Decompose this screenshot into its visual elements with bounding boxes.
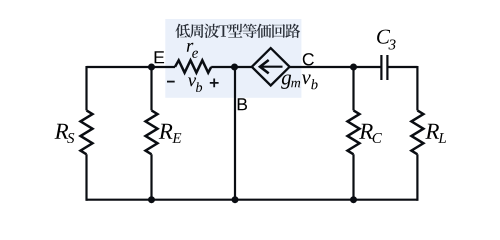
label vb: [188, 78, 202, 93]
capacitor C3 plates: [381, 55, 387, 80]
wire: top-left horizontal segment from RS top corner to node E: [87, 66, 152, 68]
dependent current source G1 arrow head pointing left: [260, 60, 269, 73]
label re: [187, 43, 198, 58]
wire: current source right terminal to RC top junction: [290, 66, 354, 68]
label C (node): [303, 53, 314, 65]
resistor RS: [81, 110, 93, 154]
wire: node E to resistor re left lead: [152, 66, 176, 68]
label RC: [359, 124, 382, 143]
resistor RE: [146, 110, 158, 154]
label E: [155, 51, 165, 63]
resistor RC bottom lead: [352, 154, 354, 199]
label RS: [55, 124, 75, 143]
label RE: [159, 124, 182, 143]
label gm vb: [281, 75, 317, 90]
resistor RL top lead: [416, 66, 418, 110]
dependent current source G1 (gm vb) diamond body: [252, 48, 290, 85]
node E junction dot: [148, 64, 155, 71]
label B: [238, 98, 247, 110]
resistor RC: [348, 110, 360, 154]
resistor RS top lead: [85, 66, 87, 110]
resistor RC top lead: [352, 67, 354, 110]
dependent current source G1 arrow shaft: [262, 66, 283, 68]
wire: bottom rail: [87, 199, 418, 201]
wire: node B to current source left terminal: [235, 66, 252, 68]
resistor RS bottom lead: [85, 154, 87, 201]
wire: capacitor C3 right plate to RL top corner: [388, 66, 418, 68]
wire: node B vertical down to bottom rail: [234, 67, 236, 200]
wire: RC top junction to capacitor C3 left plate: [354, 66, 382, 68]
label plus sign of vb: [210, 79, 219, 88]
annotation highlight box: [165, 19, 301, 98]
junction dot at node B bottom: [232, 196, 239, 203]
resistor RL bottom lead: [416, 154, 418, 201]
node B junction dot: [231, 64, 238, 71]
node at RC top junction dot: [350, 64, 357, 71]
label C3: [377, 30, 396, 50]
junction dot at RE bottom: [148, 196, 155, 203]
label minus sign of vb: [167, 81, 175, 83]
annotation text 低周波T型等価回路: [175, 24, 300, 38]
resistor RE top lead: [150, 67, 152, 110]
junction dot at RC bottom: [350, 196, 357, 203]
label RL: [425, 124, 446, 143]
resistor RE bottom lead: [150, 154, 152, 199]
resistor re: [175, 60, 211, 72]
resistor RL: [411, 110, 423, 154]
wire: resistor re right lead to node B: [211, 66, 234, 68]
